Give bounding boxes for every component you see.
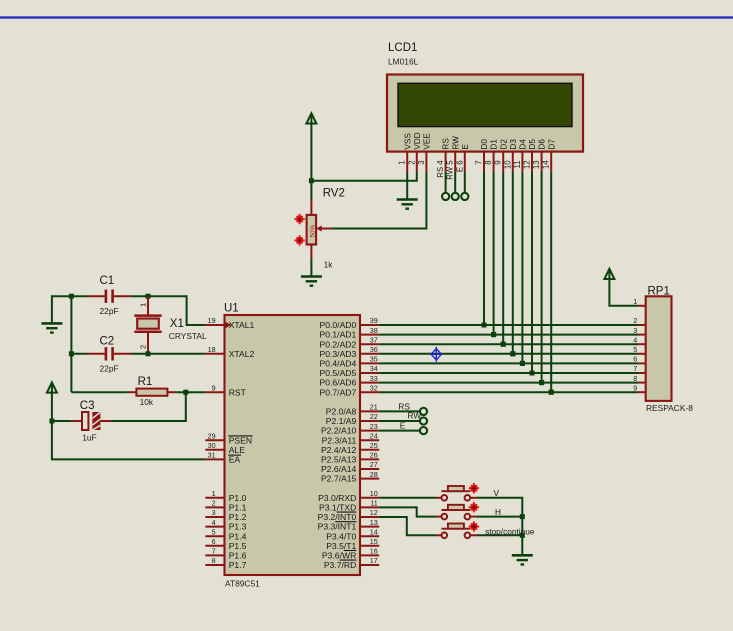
wire D5 vertical	[531, 172, 533, 373]
wire P0.0 bus to RP1 pin 2	[379, 324, 638, 326]
lcd pin RW 5 RW	[454, 152, 456, 172]
wire C2 left	[71, 353, 88, 355]
svg-text:2: 2	[633, 316, 637, 325]
svg-text:22pF: 22pF	[100, 306, 119, 316]
pin 38 P0.1/AD1 (U1 right)	[360, 334, 379, 336]
wire D4 vertical	[521, 172, 523, 364]
power terminal (RV2)	[306, 113, 316, 123]
svg-text:9: 9	[494, 160, 503, 164]
junction power/C3	[49, 419, 54, 424]
svg-text:10: 10	[503, 160, 512, 169]
pin 25 P2.4/A12 (U1 right)	[360, 449, 379, 451]
svg-text:21: 21	[370, 403, 378, 412]
svg-text:8: 8	[633, 374, 637, 383]
junction D6 on bus	[539, 380, 544, 385]
svg-text:RW 5: RW 5	[446, 160, 455, 180]
svg-text:23: 23	[370, 422, 378, 431]
svg-text:26: 26	[370, 451, 378, 460]
junction crystal top	[146, 294, 151, 299]
pin 4 P1.3 (U1 left)	[205, 526, 224, 528]
svg-text:CRYSTAL: CRYSTAL	[169, 331, 207, 341]
svg-text:11: 11	[513, 160, 522, 168]
svg-text:18: 18	[208, 345, 216, 354]
svg-text:4: 4	[633, 335, 637, 344]
svg-text:50%: 50%	[309, 224, 316, 237]
pin 23 P2.2/A10 (U1 right)	[360, 430, 379, 432]
pin 16 P3.6/WR (U1 right)	[360, 554, 379, 556]
svg-text:AT89C51: AT89C51	[225, 579, 260, 589]
lcd pin E 6 E	[464, 152, 466, 172]
svg-text:17: 17	[370, 556, 378, 565]
svg-text:27: 27	[370, 460, 378, 469]
potentiometer RV2 body	[307, 215, 317, 245]
svg-text:XTAL2: XTAL2	[229, 349, 255, 359]
svg-text:28: 28	[370, 470, 378, 479]
pin 37 P0.2/AD2 (U1 right)	[360, 343, 379, 345]
wire ground riser to C1	[52, 296, 88, 323]
lcd pin RS 4 RS	[445, 152, 447, 172]
svg-text:1k: 1k	[324, 260, 334, 270]
svg-text:P0.5/AD5: P0.5/AD5	[320, 368, 357, 378]
svg-text:P2.1/A9: P2.1/A9	[326, 416, 357, 426]
svg-text:3: 3	[417, 160, 426, 164]
svg-text:P3.1/TXD: P3.1/TXD	[319, 503, 356, 513]
svg-text:VEE: VEE	[423, 133, 432, 150]
wire D6 vertical	[541, 172, 543, 383]
svg-text:P3.0/RXD: P3.0/RXD	[318, 493, 356, 503]
svg-text:EA: EA	[229, 455, 241, 465]
svg-text:PSEN: PSEN	[229, 435, 252, 445]
origin marker (blue diamond cursor)	[430, 347, 443, 362]
wire power to VDD rail	[310, 124, 312, 181]
rp1 pin 3	[638, 334, 646, 336]
svg-text:RS: RS	[442, 138, 451, 150]
svg-text:P3.7/RD: P3.7/RD	[324, 560, 356, 570]
svg-text:P2.3/A11: P2.3/A11	[322, 435, 357, 445]
svg-text:D6: D6	[538, 139, 547, 150]
svg-text:P2.6/A14: P2.6/A14	[321, 464, 357, 474]
pin 34 P0.5/AD5 (U1 right)	[360, 372, 379, 374]
junction C1 node	[69, 294, 74, 299]
svg-text:2: 2	[407, 160, 416, 164]
svg-text:RW: RW	[451, 136, 460, 150]
svg-text:RW: RW	[408, 411, 422, 421]
overline PSEN	[228, 435, 252, 437]
svg-text:P3.4/T0: P3.4/T0	[326, 531, 356, 541]
svg-text:RESPACK-8: RESPACK-8	[646, 403, 693, 413]
svg-text:15: 15	[370, 537, 378, 546]
wire junction to C3	[52, 420, 72, 422]
svg-text:9: 9	[633, 383, 637, 392]
pin 17 P3.7/RD (U1 right)	[360, 564, 379, 566]
lcd pin 11 D4	[521, 152, 523, 172]
svg-text:ALE: ALE	[229, 445, 246, 455]
svg-text:P1.4: P1.4	[229, 531, 247, 541]
svg-text:24: 24	[370, 431, 378, 440]
svg-text:1: 1	[398, 160, 407, 164]
svg-text:6: 6	[633, 355, 637, 364]
respack RP1 body	[646, 296, 672, 401]
svg-text:5: 5	[212, 527, 216, 536]
pin 36 P0.3/AD3 (U1 right)	[360, 353, 379, 355]
svg-text:1uF: 1uF	[82, 432, 96, 442]
junction D2/P0.2	[501, 342, 506, 347]
svg-text:D5: D5	[528, 139, 537, 150]
junction D1 on bus	[491, 332, 496, 337]
ground (LCD VSS)	[397, 200, 418, 209]
wire P2.0 to RS terminal	[379, 410, 420, 412]
ground (crystal)	[41, 323, 62, 332]
terminal RW (MCU side)	[420, 417, 427, 424]
wire C3 riser	[111, 392, 186, 421]
pin 28 P2.7/A15 (U1 right)	[360, 478, 379, 480]
svg-text:6: 6	[212, 537, 216, 546]
wire RV2 to ground	[310, 259, 312, 277]
junction RST/C3	[183, 390, 188, 395]
svg-text:16: 16	[370, 547, 378, 556]
wire LCD RW stub	[454, 172, 456, 193]
terminal RS (LCD side)	[442, 193, 449, 200]
rp1 pin 2	[638, 324, 646, 326]
svg-text:8: 8	[212, 556, 216, 565]
lcd pin 1 VSS	[406, 152, 408, 172]
wire P3.2 to button stop/continue	[379, 517, 436, 535]
wire button stop to rail	[477, 534, 522, 536]
wire P0.6 bus to RP1 pin 8	[379, 382, 638, 384]
svg-text:U1: U1	[224, 303, 239, 315]
wire P0.7 bus to RP1 pin 9	[379, 391, 638, 393]
svg-text:P1.7: P1.7	[229, 560, 247, 570]
button (H)	[436, 516, 441, 518]
svg-text:12: 12	[370, 508, 378, 517]
pin 27 P2.6/A14 (U1 right)	[360, 468, 379, 470]
svg-text:29: 29	[208, 431, 216, 440]
pin 24 P2.3/A11 (U1 right)	[360, 439, 379, 441]
svg-text:13: 13	[370, 518, 378, 527]
rp1 pin 4	[638, 343, 646, 345]
svg-text:1: 1	[633, 297, 637, 306]
wire D1 vertical	[493, 172, 495, 335]
svg-text:E: E	[461, 144, 470, 150]
wire P0.3 bus to RP1 pin 5	[379, 353, 638, 355]
svg-text:D1: D1	[490, 139, 499, 150]
terminal RS (MCU side)	[420, 408, 427, 415]
svg-text:31: 31	[208, 451, 216, 460]
svg-text:33: 33	[370, 374, 378, 383]
svg-text:VSS: VSS	[403, 133, 412, 150]
junction D4 on bus	[520, 361, 525, 366]
svg-text:P0.4/AD4: P0.4/AD4	[320, 359, 357, 369]
pin 33 P0.6/AD6 (U1 right)	[360, 382, 379, 384]
pin 7 P1.6 (U1 left)	[205, 554, 224, 556]
terminal E (MCU side)	[420, 427, 427, 434]
svg-text:39: 39	[370, 316, 378, 325]
svg-text:9: 9	[212, 383, 216, 392]
pin 29 PSEN (U1 left)	[205, 439, 224, 441]
svg-text:P1.2: P1.2	[229, 512, 247, 522]
wire D7 vertical	[550, 172, 552, 392]
svg-text:P0.3/AD3: P0.3/AD3	[320, 349, 357, 359]
svg-text:P1.6: P1.6	[229, 551, 247, 561]
junction crystal bottom	[146, 351, 151, 356]
capacitor C2	[88, 353, 105, 355]
junction D1/P0.1	[491, 332, 496, 337]
svg-text:11: 11	[370, 499, 377, 508]
svg-text:7: 7	[475, 160, 484, 164]
wire P0.1 bus to RP1 pin 3	[379, 334, 638, 336]
pin 22 P2.1/A9 (U1 right)	[360, 420, 379, 422]
svg-text:D4: D4	[519, 139, 528, 150]
svg-text:2: 2	[212, 499, 216, 508]
pin 11 P3.1/TXD (U1 right)	[360, 506, 379, 508]
lcd LCD1 screen	[398, 83, 572, 126]
top blue border line	[0, 16, 733, 18]
rv2 top lead	[310, 200, 312, 215]
svg-text:D2: D2	[499, 139, 508, 150]
wire R1 to RST	[176, 391, 205, 393]
wire D2 vertical	[502, 172, 504, 344]
ground (RV2)	[301, 277, 322, 286]
lcd pin 14 D7	[550, 152, 552, 172]
svg-text:32: 32	[370, 383, 378, 392]
wire C2 to XTAL2	[131, 353, 206, 355]
svg-text:22pF: 22pF	[100, 364, 119, 374]
svg-text:H: H	[495, 507, 501, 517]
svg-text:38: 38	[370, 326, 378, 335]
svg-text:P2.4/A12: P2.4/A12	[321, 445, 357, 455]
pin 35 P0.4/AD4 (U1 right)	[360, 362, 379, 364]
svg-text:RV2: RV2	[323, 187, 345, 199]
wire VDD to power rail	[311, 172, 416, 181]
pin 30 ALE (U1 left)	[205, 449, 224, 451]
junction D4/P0.4	[520, 361, 525, 366]
button stop/continue actuator	[469, 521, 479, 531]
wire P2.2 to E terminal	[379, 430, 420, 432]
wire power down to EA	[52, 393, 205, 460]
svg-text:34: 34	[370, 364, 378, 373]
svg-text:1: 1	[138, 303, 147, 307]
pin 3 P1.2 (U1 left)	[205, 516, 224, 518]
pin 15 P3.5/T1 (U1 right)	[360, 545, 379, 547]
rv2 bottom lead	[310, 245, 312, 260]
wire button H to rail	[477, 516, 522, 518]
svg-text:2: 2	[138, 345, 147, 349]
svg-text:P3.6/WR: P3.6/WR	[322, 551, 356, 561]
wire C1 to XTAL1	[131, 296, 206, 325]
rv2 wiper arrow	[316, 225, 321, 231]
wire P0.2 bus to RP1 pin 4	[379, 343, 638, 345]
svg-text:R1: R1	[138, 376, 153, 388]
junction D3 on bus	[510, 351, 515, 356]
lcd pin 10 D3	[512, 152, 514, 172]
lcd pin 9 D2	[502, 152, 504, 172]
junction D3/P0.3	[510, 351, 515, 356]
svg-text:1: 1	[212, 489, 216, 498]
pin 26 P2.5/A13 (U1 right)	[360, 458, 379, 460]
svg-text:35: 35	[370, 355, 378, 364]
pin 18 XTAL2 (U1 left)	[205, 353, 224, 355]
svg-text:14: 14	[542, 160, 551, 169]
svg-text:stop/continue: stop/continue	[485, 526, 535, 536]
svg-text:D0: D0	[480, 139, 489, 150]
svg-text:D7: D7	[547, 139, 556, 150]
svg-text:P2.2/A10: P2.2/A10	[321, 426, 357, 436]
junction D5/P0.5	[530, 371, 535, 376]
wire LCD RS stub	[445, 172, 447, 193]
svg-text:RP1: RP1	[648, 285, 670, 297]
wire D3 vertical	[512, 172, 514, 354]
svg-text:P0.2/AD2: P0.2/AD2	[320, 339, 357, 349]
svg-text:E: E	[400, 421, 406, 431]
pin 6 P1.5 (U1 left)	[205, 545, 224, 547]
terminal RW (LCD side)	[452, 193, 459, 200]
XTAL1 edge marker	[226, 322, 232, 328]
svg-text:X1: X1	[170, 318, 184, 330]
junction rail/stop	[520, 533, 525, 538]
junction D0 on bus	[482, 323, 487, 328]
resistor R1	[128, 391, 137, 393]
svg-text:12: 12	[523, 160, 532, 169]
svg-text:7: 7	[212, 547, 216, 556]
svg-text:14: 14	[370, 527, 378, 536]
rv2 increment actuator	[294, 214, 304, 224]
svg-text:P1.1: P1.1	[229, 503, 247, 513]
svg-text:C2: C2	[100, 335, 115, 347]
lcd pin 13 D6	[541, 152, 543, 172]
crystal X1	[147, 296, 149, 315]
wire power to RP1 pin1	[609, 279, 638, 306]
wire P3.1 to button H	[379, 507, 436, 516]
pin 5 P1.4 (U1 left)	[205, 535, 224, 537]
svg-text:E 6: E 6	[455, 160, 464, 172]
junction D5 on bus	[530, 371, 535, 376]
wire VEE to RV2 wiper	[332, 172, 427, 229]
junction D7/P0.7	[549, 390, 554, 395]
svg-text:10k: 10k	[140, 397, 154, 407]
wire button V to rail	[477, 498, 522, 555]
svg-text:P0.0/AD0: P0.0/AD0	[320, 320, 357, 330]
pin 31 EA (U1 left)	[205, 458, 224, 460]
svg-text:30: 30	[208, 441, 216, 450]
svg-text:P2.0/A8: P2.0/A8	[326, 407, 357, 417]
ground (buttons)	[512, 555, 533, 564]
lcd pin 7 D0	[483, 152, 485, 172]
terminal E (LCD side)	[461, 193, 468, 200]
svg-text:P2.7/A15: P2.7/A15	[321, 474, 357, 484]
power terminal (RP1)	[604, 269, 614, 279]
rp1 pin 9	[638, 391, 646, 393]
pin 32 P0.7/AD7 (U1 right)	[360, 391, 379, 393]
svg-text:5: 5	[633, 345, 637, 354]
wire P0.4 bus to RP1 pin 6	[379, 362, 638, 364]
lcd LCD1 body	[387, 75, 583, 152]
wire C1/C2 branch vertical	[70, 296, 72, 392]
lcd pin 12 D5	[531, 152, 533, 172]
svg-text:37: 37	[370, 335, 378, 344]
svg-text:P3.2/INT0: P3.2/INT0	[318, 512, 357, 522]
capacitor C1	[88, 295, 105, 297]
power terminal (C3/EA)	[47, 382, 57, 392]
junction D0/P0.0	[482, 323, 487, 328]
overline EA	[228, 454, 241, 456]
rp1 pin 5	[638, 353, 646, 355]
svg-text:P0.7/AD7: P0.7/AD7	[320, 387, 357, 397]
rv2 wiper lead	[321, 228, 332, 230]
svg-text:XTAL1: XTAL1	[229, 320, 255, 330]
svg-text:LCD1: LCD1	[388, 42, 417, 54]
svg-text:19: 19	[208, 316, 216, 325]
wire LCD E stub	[464, 172, 466, 193]
junction D7 on bus	[549, 390, 554, 395]
rp1 pin 6	[638, 362, 646, 364]
pin 19 XTAL1 (U1 left)	[205, 324, 224, 326]
svg-text:P3.5/T1: P3.5/T1	[326, 541, 356, 551]
wire rail to RV2 top	[310, 181, 312, 201]
lcd pin 2 VDD	[416, 152, 418, 172]
junction D6/P0.6	[539, 380, 544, 385]
rp1 pin 7	[638, 372, 646, 374]
svg-text:22: 22	[370, 412, 378, 421]
pin 13 P3.3/INT1 (U1 right)	[360, 526, 379, 528]
svg-text:13: 13	[532, 160, 541, 169]
button H actuator	[469, 502, 479, 512]
wire P0.5 bus to RP1 pin 7	[379, 372, 638, 374]
rv2 decrement actuator	[294, 235, 304, 245]
pin 1 P1.0 (U1 left)	[205, 497, 224, 499]
svg-text:RS 4: RS 4	[436, 160, 445, 178]
svg-text:3: 3	[633, 326, 637, 335]
pin 21 P2.0/A8 (U1 right)	[360, 410, 379, 412]
button (stop/continue)	[436, 534, 441, 536]
pin 9 RST (U1 left)	[205, 391, 224, 393]
lcd pin 3 VEE	[425, 152, 427, 172]
capacitor C3 (polarized)	[72, 420, 82, 422]
pin 8 P1.7 (U1 left)	[205, 564, 224, 566]
svg-text:25: 25	[370, 441, 378, 450]
svg-text:RST: RST	[229, 387, 247, 397]
svg-text:V: V	[494, 488, 500, 498]
rp1 pin 8	[638, 382, 646, 384]
button V actuator	[469, 483, 479, 493]
svg-text:P1.5: P1.5	[229, 541, 247, 551]
svg-text:7: 7	[633, 364, 637, 373]
wire branch to R1	[71, 391, 127, 393]
svg-text:C3: C3	[80, 400, 95, 412]
junction power/VDD rail	[309, 178, 314, 183]
svg-text:P1.3: P1.3	[229, 522, 247, 532]
pin 39 P0.0/AD0 (U1 right)	[360, 324, 379, 326]
junction C2 node	[69, 351, 74, 356]
pin 14 P3.4/T0 (U1 right)	[360, 535, 379, 537]
junction rail/H	[520, 514, 525, 519]
button (V)	[436, 497, 441, 499]
junction D2 on bus	[501, 342, 506, 347]
op U1 body	[225, 315, 361, 575]
svg-text:10: 10	[370, 489, 378, 498]
pin 2 P1.1 (U1 left)	[205, 506, 224, 508]
svg-text:P2.5/A13: P2.5/A13	[321, 455, 357, 465]
svg-text:8: 8	[484, 160, 493, 164]
lcd pin 8 D1	[493, 152, 495, 172]
wire D0 vertical	[483, 172, 485, 325]
rp1 pin 1	[638, 305, 646, 307]
svg-text:VDD: VDD	[413, 132, 422, 149]
svg-text:LM016L: LM016L	[388, 57, 419, 67]
svg-text:P1.0: P1.0	[229, 493, 247, 503]
pin 10 P3.0/RXD (U1 right)	[360, 497, 379, 499]
wire VSS to ground	[406, 172, 408, 199]
wire P3.0 to button V	[379, 497, 436, 499]
